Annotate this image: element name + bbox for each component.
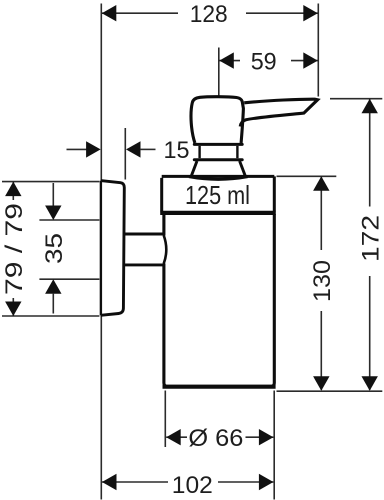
pump lever outline <box>240 99 317 126</box>
hole-top extension line (35 upper) <box>39 219 99 221</box>
dimension 79/79 bottom arrowhead <box>5 302 21 317</box>
svg-text:128: 128 <box>190 1 228 28</box>
svg-text:Ø 66: Ø 66 <box>188 425 243 452</box>
dimension 79/79 line <box>12 182 14 316</box>
spout-level extension line (172 upper) <box>330 98 382 100</box>
wall extension line (left reference plane) <box>100 4 102 500</box>
plate-bottom extension line (79/79 lower) <box>2 315 99 317</box>
holder ring outline <box>162 176 275 211</box>
dimension 128 left arrowhead <box>102 5 117 21</box>
dimension 59 line <box>219 60 317 62</box>
spout-tip extension line (right reference for 128/59) <box>317 4 319 97</box>
pump skirt right edge <box>240 161 246 177</box>
pump collar right side <box>236 146 238 158</box>
dimension 130 bottom arrowhead <box>313 376 329 391</box>
dimension 102 line <box>102 481 273 483</box>
dimension 35 top arrow tail <box>52 183 54 206</box>
container-right extension line shared by 66 and 102 <box>273 391 275 500</box>
container bottom edge <box>163 385 276 389</box>
dimension 102 left arrowhead <box>102 474 117 490</box>
dimension 35 bottom arrow tail <box>52 293 54 314</box>
dimension 172 bottom arrowhead <box>362 376 378 391</box>
container-left extension line (diameter 66 left) <box>164 391 166 448</box>
dimension 102 right arrowhead <box>259 474 274 490</box>
dimension 35 bottom arrowhead <box>45 279 61 294</box>
dimension 15 right arrow tail <box>140 148 156 150</box>
plate-front extension line (right reference for 15) <box>124 128 126 180</box>
dimension 59 left arrowhead <box>219 52 234 68</box>
dimension 172 line <box>369 99 371 390</box>
container body outline <box>164 214 274 386</box>
dimension 172 top arrowhead <box>362 99 378 114</box>
wall plate outline <box>101 181 125 316</box>
svg-text:130: 130 <box>309 260 336 302</box>
dimension 130 line <box>320 177 322 390</box>
svg-text:79 / 79: 79 / 79 <box>1 203 28 295</box>
pump collar left side <box>198 146 200 158</box>
arm bottom edge <box>125 263 164 266</box>
plate-top extension line (79/79 upper) <box>2 181 99 183</box>
dimension 15 right arrowhead <box>126 141 141 157</box>
pump skirt bottom arc <box>189 177 248 180</box>
dimension 66 line <box>166 436 273 438</box>
arm end bulge <box>164 235 167 263</box>
pump collar bottom edge <box>194 158 242 161</box>
arm top edge <box>125 233 164 236</box>
dimension 59 right arrowhead <box>303 52 318 68</box>
svg-text:59: 59 <box>251 48 277 75</box>
wall plate left edge <box>100 181 102 316</box>
dimension 128 right arrowhead <box>303 5 318 21</box>
dimension 35 top arrowhead <box>45 206 61 221</box>
dimension 15 left arrow tail <box>67 148 88 150</box>
pump-pivot extension line (left reference for 59) <box>218 48 220 96</box>
svg-text:15: 15 <box>164 137 190 164</box>
pump skirt left edge <box>191 161 197 177</box>
svg-text:172: 172 <box>357 215 384 262</box>
dimension 128 line <box>102 12 318 14</box>
holder ring bottom edge <box>160 211 276 215</box>
dimension 79/79 top arrowhead <box>5 182 21 197</box>
svg-text:35: 35 <box>41 233 68 264</box>
pump collar top edge <box>194 143 242 146</box>
dimension 66 right arrowhead <box>259 429 274 445</box>
dimension 66 left arrowhead <box>166 429 181 445</box>
svg-text:102: 102 <box>172 472 213 499</box>
pump head outline <box>191 97 243 143</box>
dimension 130 top arrowhead <box>313 176 329 191</box>
holder-top extension line (130 upper) <box>277 175 337 177</box>
bottom extension line shared by 130 and 172 <box>277 390 383 392</box>
svg-text:125 ml: 125 ml <box>185 180 250 210</box>
dimension 15 left arrowhead <box>86 141 101 157</box>
hole-bottom extension line (35 lower) <box>39 278 99 280</box>
